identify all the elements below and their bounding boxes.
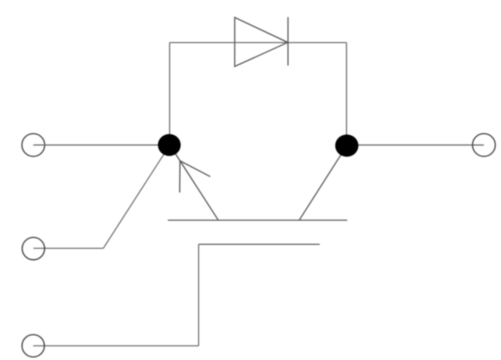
terminal E (top-left connector circle) [22, 134, 45, 157]
wire node C to collector terminal [347, 144, 484, 146]
wire node E up to diode rail [169, 43, 171, 145]
wire top rail right drop to node C [346, 43, 348, 145]
diode D1 (anti-parallel, anode left / cathode right) [235, 17, 288, 66]
terminal C (right connector circle) [473, 134, 496, 157]
IGBT Q1 channel plate [168, 219, 347, 221]
wire gate lead horizontal to terminal G [33, 345, 198, 347]
terminal G (bottom-left connector circle) [22, 335, 44, 357]
wire Kelvin emitter horizontal to terminal [33, 247, 103, 249]
node E (emitter junction dot) [158, 134, 181, 156]
wire emitter terminal to node E [33, 144, 170, 146]
wire gate lead vertical [198, 244, 200, 345]
IGBT Q1 gate bar [199, 243, 320, 245]
IGBT Q1 emitter leg (node E to plate) [170, 145, 219, 220]
wire top rail (diode branch) [170, 42, 347, 44]
node C (collector junction dot) [335, 135, 358, 157]
terminal E2 (Kelvin emitter connector circle) [22, 237, 44, 259]
wire Kelvin emitter diagonal (node E to bend) [103, 145, 170, 248]
IGBT Q1 emitter arrow [180, 161, 211, 193]
IGBT Q1 collector leg (node C to plate) [299, 146, 347, 221]
